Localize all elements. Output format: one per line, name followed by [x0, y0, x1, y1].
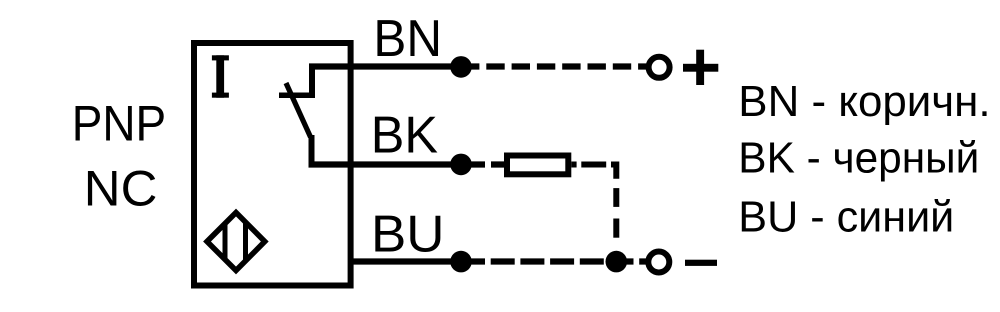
- label I (inductive sensor marking, drawn serif I): [212, 55, 229, 97]
- svg-text:BK: BK: [371, 107, 438, 165]
- node load return junction dot: [606, 251, 628, 273]
- node BU terminal junction dot: [450, 251, 472, 273]
- wire BU solid segment: [348, 258, 461, 264]
- proximity sensor symbol inner chord right: [243, 210, 248, 273]
- switch S1 vertical lead to BK wire: [309, 135, 315, 168]
- svg-text:BN: BN: [373, 10, 442, 68]
- wire corner dash (turn down): [611, 165, 616, 179]
- svg-text:BU - синий: BU - синий: [738, 193, 954, 242]
- proximity sensor symbol diamond: [207, 213, 265, 271]
- wire vertical dash 2: [613, 219, 619, 238]
- node BN terminal junction dot: [450, 56, 472, 78]
- wire vertical dash 1: [613, 188, 619, 207]
- svg-text:BK - черный: BK - черный: [738, 134, 979, 183]
- wire BN dashed segment to plus terminal: [461, 63, 648, 69]
- switch S1 vertical lead from BN wire: [309, 64, 315, 99]
- sensor body U1 (rectangle outline): [194, 43, 351, 286]
- proximity sensor symbol inner chord left: [223, 210, 228, 273]
- load resistor R1 (load box): [507, 156, 568, 175]
- wire dash after load: [581, 162, 606, 168]
- terminal circle minus side: [648, 252, 669, 273]
- minus sign: [685, 260, 717, 266]
- svg-text:NC: NC: [84, 161, 158, 217]
- node BK terminal junction dot: [450, 154, 472, 176]
- wire BU dashed segment to minus terminal: [461, 258, 646, 264]
- wire BK solid segment: [309, 161, 462, 167]
- wire BK dashed segment to load: [461, 161, 504, 167]
- terminal circle plus side: [649, 57, 670, 78]
- svg-text:PNP: PNP: [72, 96, 167, 152]
- wire dash stub after load: [571, 162, 576, 168]
- svg-text:BU: BU: [371, 206, 445, 264]
- switch S1 moving lever (NC contact): [286, 83, 311, 137]
- switch S1 fixed contact bar: [279, 93, 315, 99]
- svg-text:BN - коричн.: BN - коричн.: [738, 77, 990, 126]
- wire BN solid segment: [309, 63, 461, 69]
- plus sign: [683, 50, 718, 85]
